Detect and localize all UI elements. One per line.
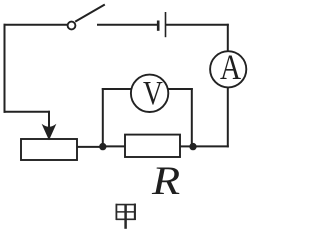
wire node A to rheostat — [77, 146, 103, 148]
wire resistor R to node A — [103, 145, 125, 147]
wire ammeter to bottom-right corner — [227, 87, 229, 146]
voltmeter U-V circle — [131, 75, 168, 112]
wire voltmeter right vertical to node B — [191, 89, 193, 146]
wire top-left horizontal (left corner to switch) — [5, 24, 68, 26]
battery cell: short thick plate (negative) — [157, 21, 160, 31]
switch S pivot circle — [68, 22, 76, 30]
rheostat box — [21, 139, 77, 160]
label jia (Chinese caption) drawn as strokes — [116, 204, 136, 229]
wire right vertical to ammeter — [227, 25, 229, 52]
voltmeter label V — [143, 77, 163, 111]
resistor R box — [125, 135, 180, 157]
node A junction dot — [99, 143, 106, 150]
wire slider stem — [48, 112, 50, 127]
wire horizontal to slider — [5, 111, 50, 113]
node B junction dot — [189, 143, 196, 150]
battery cell: long thin plate (positive) — [165, 12, 167, 37]
wire battery to top-right corner — [167, 24, 228, 26]
switch S lever — [75, 5, 105, 22]
wire voltmeter left vertical — [102, 89, 104, 146]
label R value — [152, 161, 180, 201]
wire voltmeter left horizontal — [103, 88, 131, 90]
wire switch to battery — [98, 24, 157, 26]
ammeter U-A circle — [210, 51, 246, 87]
ammeter label A — [220, 49, 241, 85]
wire node B to resistor R — [180, 145, 193, 147]
wire bottom-right horizontal to node B — [193, 145, 228, 147]
wire voltmeter right horizontal — [168, 88, 192, 90]
wire left vertical — [4, 25, 6, 112]
rheostat slider arrowhead — [43, 125, 55, 139]
